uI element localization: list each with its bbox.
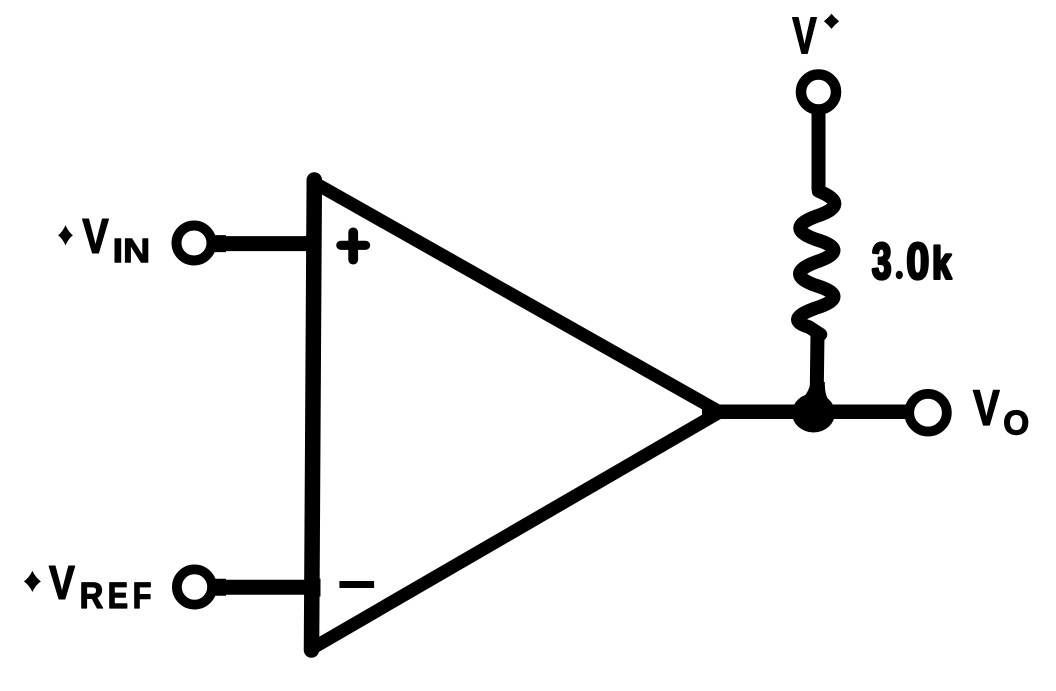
label VREF subscript R: [82, 583, 103, 608]
label +VIN plus star: [58, 225, 73, 245]
label V+ superscript plus star: [824, 14, 839, 29]
label VIN letter V: [83, 219, 109, 253]
label 3.0k decimal point: [896, 271, 903, 279]
label VO letter V: [973, 390, 999, 425]
op-amp inverting input minus symbol: [339, 581, 374, 588]
terminal VO circle: [909, 394, 947, 432]
label V+ letter V: [793, 18, 817, 54]
label VREF letter V: [49, 566, 74, 599]
label +VREF plus star: [24, 571, 41, 592]
label 3.0k letter k: [935, 246, 952, 279]
label 3.0k digit 0: [908, 243, 928, 280]
wire VIN input: [226, 236, 306, 251]
label VIN subscript I: [115, 239, 121, 262]
label VO subscript O: [1005, 411, 1028, 435]
resistor R1 3.0k wavy zigzag: [798, 186, 835, 335]
label VREF subscript E: [110, 583, 127, 608]
op-amp U1 comparator triangle: [311, 180, 719, 650]
op-amp apex fill wedge: [702, 406, 725, 419]
wire resistor up to V+ terminal: [812, 110, 826, 190]
terminal +VIN circle: [177, 226, 212, 261]
op-amp non-inverting input plus symbol: [341, 232, 366, 259]
terminal +VREF circle: [177, 569, 212, 604]
terminal V+ circle: [801, 75, 836, 110]
label VIN subscript N: [126, 239, 148, 262]
label 3.0k digit 3: [873, 243, 890, 280]
wire VREF input: [226, 580, 306, 595]
wire junction up to resistor: [817, 334, 818, 410]
node output junction dot: [791, 382, 837, 408]
label VREF subscript F: [135, 583, 151, 608]
wire op-amp output to VO: [704, 405, 906, 420]
